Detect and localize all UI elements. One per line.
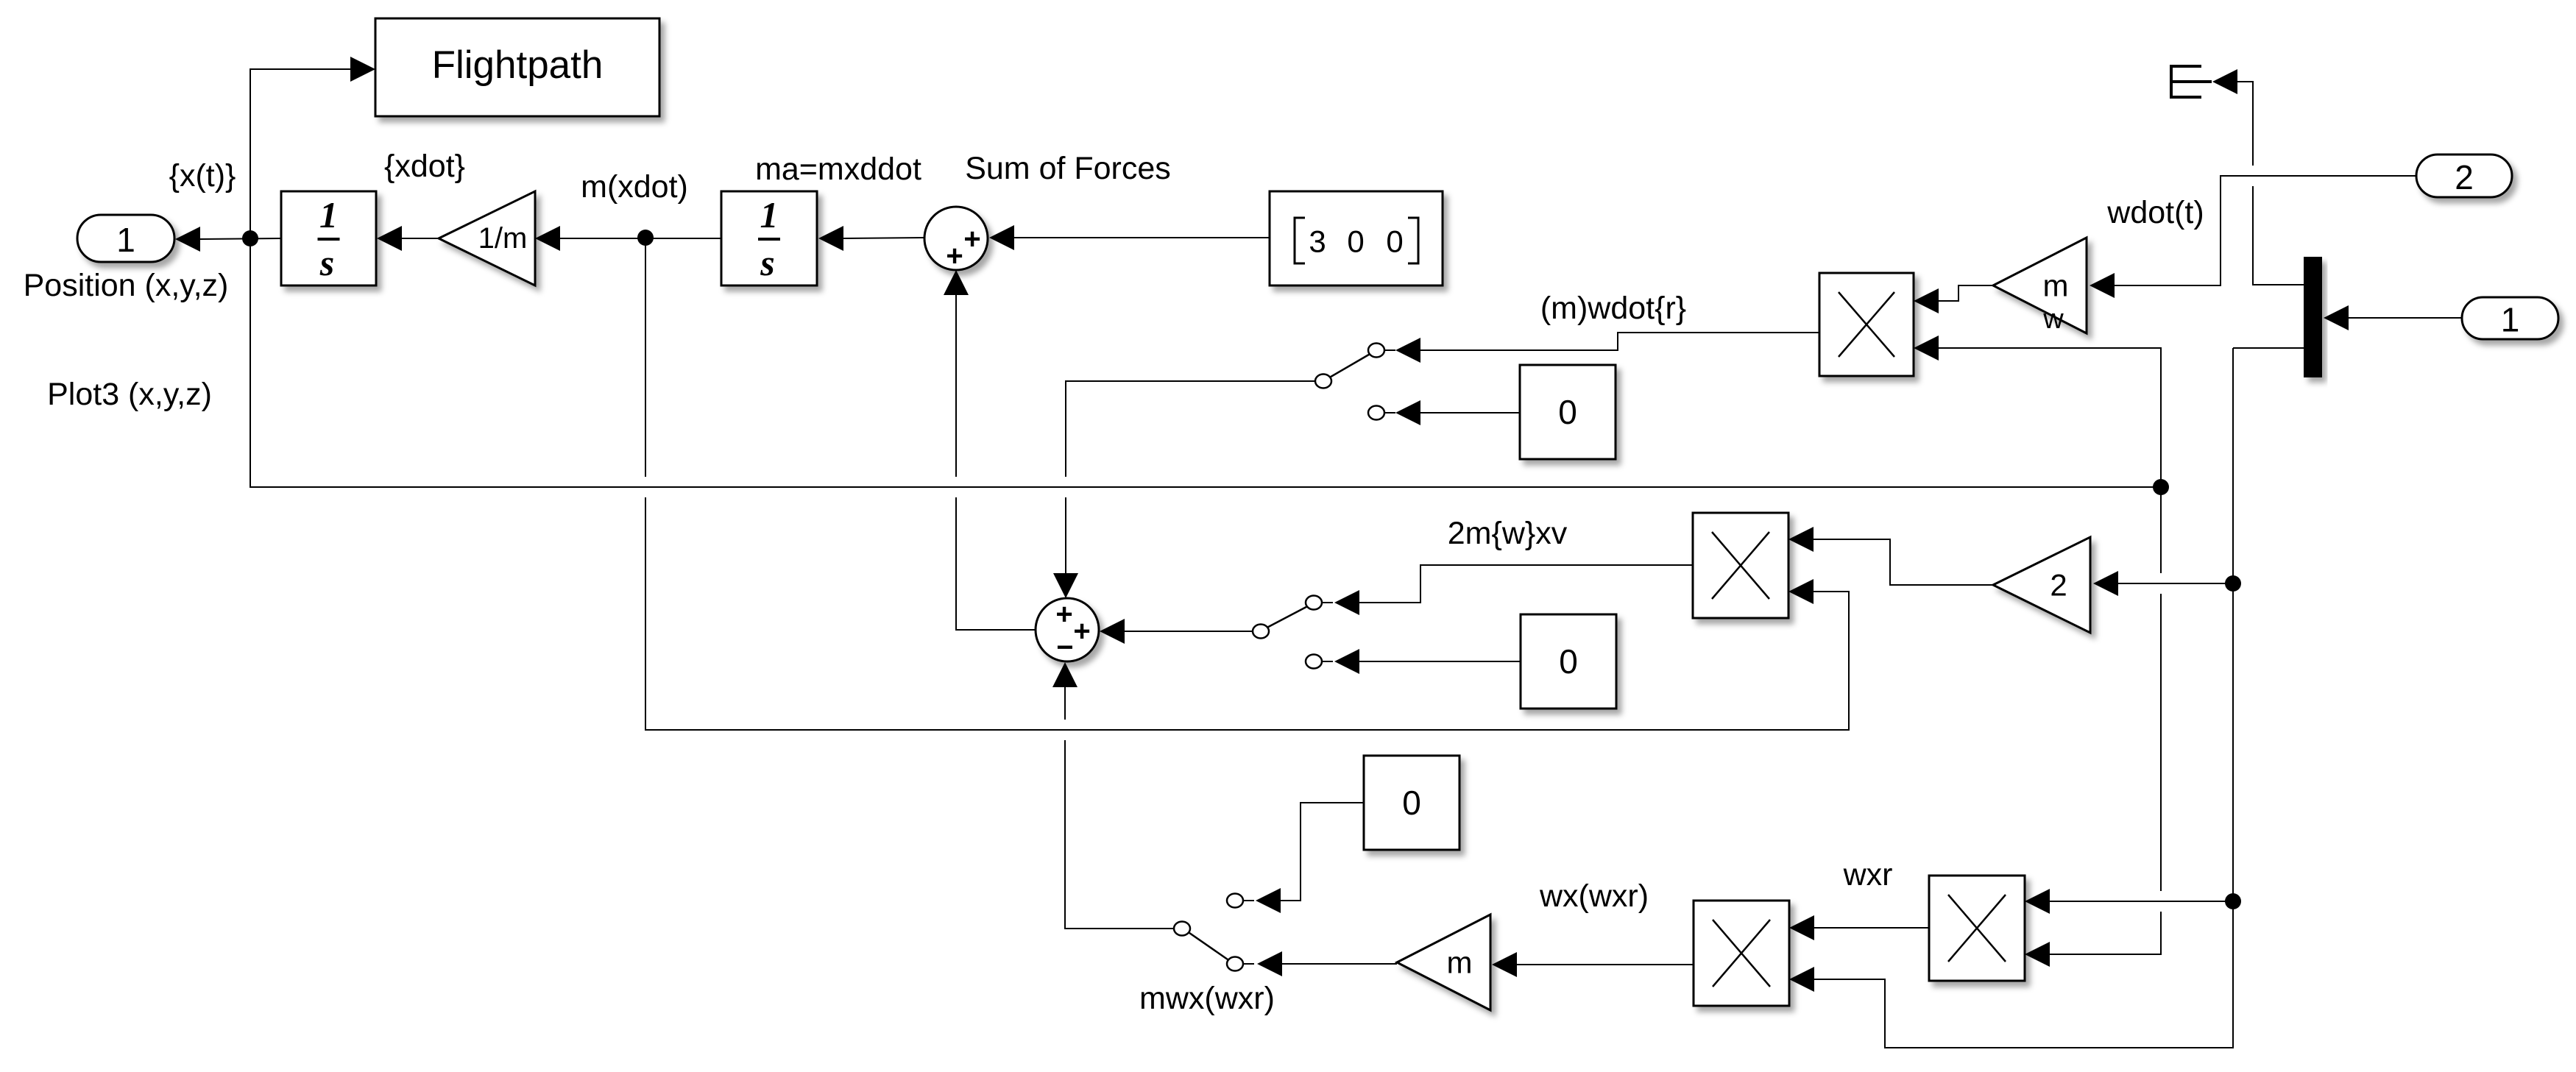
- wire: gain m2 output mwx(wxr) to switch SW3 bottom input: [1257, 951, 1397, 976]
- wire: node W down-branch to product X4 first input: [2025, 889, 2233, 914]
- wire: inport 2 wdot to gain m input: [2090, 176, 2416, 298]
- svg-text:Flightpath: Flightpath: [432, 43, 604, 87]
- wire: constant 0 (Z1) to switch SW1 bottom input: [1395, 400, 1520, 425]
- product X2 2m{w}xv cross: [1693, 513, 1788, 618]
- wire: product X3 output wx(wxr) to gain m2 input: [1492, 952, 1694, 977]
- wire: demux upper output to terminator: [2237, 82, 2304, 285]
- wire: constant 0 (Z2) to switch SW2 bottom input: [1334, 649, 1521, 674]
- wire: product X4 output wxr to product X3 first input: [1789, 915, 1929, 940]
- gain 2: [1993, 537, 2090, 633]
- wire: inport 1 to demux input: [2324, 305, 2462, 330]
- wire: sum S2 output to sum S1 bottom input: [944, 270, 1035, 630]
- svg-text:1: 1: [116, 221, 135, 259]
- wire: gain 1/m output {xdot} to integrator I1: [377, 226, 439, 251]
- svg-text:Sum of Forces: Sum of Forces: [965, 151, 1171, 186]
- junction: node W to product X4: [2225, 893, 2241, 909]
- wire: position feedback rail x(t) to node R: [250, 238, 2161, 487]
- svg-text:{xdot}: {xdot}: [384, 149, 465, 184]
- svg-text:wx(wxr): wx(wxr): [1539, 878, 1649, 914]
- wire: sum S1 output to integrator I2 (ma=mxddot): [818, 226, 924, 251]
- svg-text:0: 0: [1558, 393, 1577, 431]
- svg-text:0: 0: [1559, 642, 1578, 681]
- svg-text:+: +: [1055, 598, 1072, 631]
- sum S1 Sum of Forces: [924, 207, 988, 272]
- inport 1: [2462, 297, 2558, 339]
- svg-text:wxr: wxr: [1843, 857, 1893, 892]
- switch SW1 (manual): [1303, 344, 1395, 420]
- svg-text:mwx(wxr): mwx(wxr): [1139, 981, 1275, 1016]
- svg-text:−: −: [1056, 631, 1073, 664]
- gain m2 (bottom): [1397, 915, 1490, 1010]
- wire: integrator I2 output m(xdot) to gain 1/m: [535, 226, 721, 251]
- outport 1 Position (x,y,z): [77, 215, 174, 262]
- svg-text:s: s: [760, 242, 774, 283]
- terminator: [2171, 66, 2212, 97]
- switch SW3 (manual): [1162, 894, 1254, 971]
- wire: node R up to product X1 second input: [1914, 336, 2161, 487]
- sum S2: [1036, 598, 1099, 664]
- svg-text:1: 1: [760, 194, 779, 235]
- svg-text:0: 0: [1347, 224, 1364, 259]
- svg-text:3: 3: [1309, 224, 1326, 259]
- svg-text:+: +: [946, 240, 963, 272]
- gain m (top): [1993, 238, 2087, 335]
- wire: demux lower output stub: [2233, 347, 2304, 349]
- svg-text:s: s: [319, 242, 334, 283]
- wire: gain 2 output to product X2 first input: [1788, 527, 1993, 585]
- gain 1/m: [439, 191, 535, 285]
- constant 0 (Z1): [1520, 365, 1616, 459]
- constant 0 (Z2): [1521, 614, 1616, 709]
- svg-text:Position (x,y,z): Position (x,y,z): [24, 268, 229, 303]
- svg-text:0: 0: [1402, 784, 1421, 822]
- svg-text:{x(t)}: {x(t)}: [169, 158, 236, 194]
- product X1 (m)wdot{r} cross: [1819, 273, 1914, 376]
- svg-text:2m{w}xv: 2m{w}xv: [1448, 516, 1568, 551]
- wire crossing gaps: [643, 477, 648, 497]
- wire: demux lower output r rail to product X3 second input: [1789, 348, 2233, 1048]
- svg-text:2: 2: [2455, 158, 2474, 196]
- junction: node m(xdot): [637, 230, 654, 246]
- switch SW2 (manual): [1241, 596, 1333, 669]
- svg-text:Plot3 (x,y,z): Plot3 (x,y,z): [47, 377, 212, 412]
- svg-text:1: 1: [2501, 301, 2520, 339]
- inport 2: [2416, 155, 2512, 197]
- wire: Sum of Forces constant [3 0 0] to sum S1 right input: [989, 225, 1270, 250]
- svg-text:m: m: [1447, 945, 1473, 980]
- wire: switch SW2 output to sum S2 right input: [1100, 619, 1253, 644]
- integrator I1 (1/s): [281, 191, 376, 285]
- junction: node R on position rail: [2153, 479, 2169, 495]
- wire: node R down to product X4 second input: [2025, 487, 2161, 967]
- svg-text:ma=mxddot: ma=mxddot: [755, 152, 921, 187]
- svg-text:(m)wdot{r}: (m)wdot{r}: [1540, 291, 1686, 326]
- integrator I2 ma=mxddot (1/s): [721, 191, 817, 285]
- svg-text:w: w: [2042, 304, 2064, 335]
- svg-text:+: +: [1073, 615, 1090, 647]
- wire: product X1 output (m)wdot{r} to switch SW1 top input: [1395, 333, 1819, 363]
- wire: product X2 output 2m{w}xv to switch SW2 top input: [1334, 565, 1693, 615]
- mux/demux bar: [2304, 257, 2322, 377]
- wire: constant 0 (Z3) to switch SW3 top input: [1256, 803, 1364, 913]
- wire: switch SW3 output to sum S2 bottom input: [1052, 662, 1174, 929]
- wire: gain m output to product X1 first input: [1914, 285, 1993, 313]
- svg-text:+: +: [963, 223, 980, 255]
- constant [3 0 0]: [1270, 191, 1443, 285]
- wire: switch SW1 output to sum S2 top input: [1053, 381, 1315, 598]
- junction: node x(t): [242, 230, 258, 246]
- product X3 wx(wxr) cross: [1694, 901, 1789, 1006]
- wire: m(xdot) rail to product X2 second input: [645, 238, 1849, 730]
- svg-text:wdot(t): wdot(t): [2106, 195, 2204, 230]
- wire: node W to gain 2 input: [2093, 571, 2233, 596]
- constant 0 (Z3): [1364, 756, 1459, 850]
- svg-text:1: 1: [319, 194, 338, 235]
- svg-text:m(xdot): m(xdot): [581, 169, 688, 205]
- svg-text:1/m: 1/m: [478, 222, 528, 255]
- svg-text:2: 2: [2050, 568, 2067, 603]
- product X4 wxr cross: [1929, 876, 2025, 981]
- junction: node W to gain 2: [2225, 575, 2241, 592]
- svg-text:0: 0: [1386, 224, 1403, 259]
- wire: integrator I1 output {x(t)} to outport 1: [175, 227, 281, 252]
- svg-text:m: m: [2043, 269, 2069, 303]
- subsystem Flightpath: [375, 18, 659, 116]
- wire: node x(t) up to Flightpath scope: [250, 57, 375, 238]
